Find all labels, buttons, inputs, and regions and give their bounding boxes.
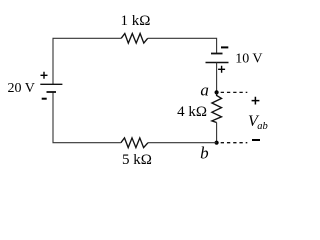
- svg-text:a: a: [200, 80, 209, 99]
- svg-text:1 kΩ: 1 kΩ: [121, 13, 151, 29]
- wire bottom-left: resistor 5k left to battery 20V negative plate: [53, 92, 121, 143]
- battery 20V positive (long) plate: [40, 83, 62, 85]
- node a junction dot: [215, 90, 219, 94]
- dashed lead from node a: [221, 91, 248, 93]
- wire: battery 20V positive terminal up and right to resistor 1k: [53, 38, 121, 84]
- battery 20V negative (short) plate: [47, 91, 57, 93]
- minus sign of battery 20V: [42, 98, 47, 100]
- svg-text:b: b: [200, 143, 209, 162]
- battery 10V negative (short) plate: [211, 53, 223, 55]
- minus sign of battery 10V: [221, 46, 228, 48]
- minus sign of Vab: [252, 139, 260, 141]
- wire: resistor 4k bottom to node b: [216, 123, 218, 143]
- wire: resistor 1k right to battery 10V negative plate: [148, 38, 217, 53]
- wire bottom: node b to resistor 5k: [148, 142, 217, 144]
- svg-text:ab: ab: [257, 121, 268, 132]
- resistor 5 kOhm (bottom): [121, 138, 148, 148]
- plus sign of battery 20V: [41, 72, 48, 79]
- svg-text:4 kΩ: 4 kΩ: [177, 104, 207, 120]
- plus sign of battery 10V: [218, 66, 225, 73]
- dashed lead from node b: [221, 142, 248, 144]
- resistor 1 kOhm (top): [121, 34, 148, 44]
- svg-text:10 V: 10 V: [235, 52, 262, 67]
- node b junction dot: [215, 141, 219, 145]
- svg-text:20 V: 20 V: [8, 81, 35, 96]
- resistor 4 kOhm (vertical, between node a and node b): [212, 92, 222, 122]
- plus sign of Vab: [252, 97, 260, 105]
- battery 10V positive (long) plate: [206, 62, 229, 64]
- wire: battery 10V positive plate down to node a: [216, 63, 218, 93]
- svg-text:5 kΩ: 5 kΩ: [122, 152, 152, 168]
